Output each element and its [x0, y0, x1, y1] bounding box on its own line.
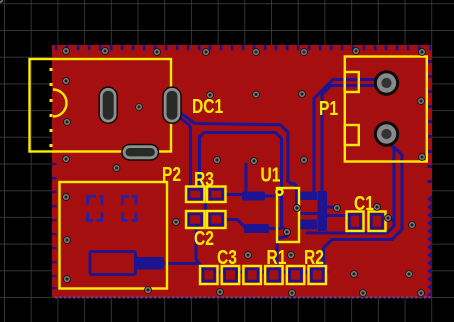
- DC1 slot pad 2: [162, 86, 182, 124]
- capacitor C3 pad 1 outline: [200, 266, 218, 284]
- small pad in DC1: [135, 103, 143, 111]
- wire C1 pad2 stub to vertical: [381, 218, 393, 221]
- svg-text:U1: U1: [261, 164, 281, 186]
- R1 pad 1 copper: [246, 269, 258, 281]
- resistor R2 pad 2 outline: [309, 266, 327, 284]
- svg-text:R2: R2: [304, 246, 324, 268]
- connector P2 outline: [60, 182, 168, 289]
- C1 pad 2 copper: [372, 215, 383, 229]
- board edge ticks: top: [55, 45, 432, 50]
- C1 pad 1 copper: [350, 215, 361, 229]
- U1 left pad bar upper: [242, 192, 265, 201]
- P2 internal blue rounded rect: [90, 252, 136, 275]
- svg-text:P2: P2: [162, 163, 181, 185]
- connector P1 outline: [345, 57, 427, 162]
- R3 pad 1 copper: [189, 190, 202, 200]
- U1 right pad bar lower: [299, 220, 317, 230]
- C3 pad 2 copper: [225, 269, 237, 281]
- capacitor C1 pad 1 outline: [347, 212, 364, 232]
- resistor R2 pad 1 outline: [287, 266, 305, 284]
- DC1 dashed edge marks: [50, 68, 53, 147]
- resistor R3 pad 2 outline: [207, 187, 226, 203]
- capacitor C2 pad 2 outline: [207, 211, 226, 228]
- resistor R1 pad 1 outline: [243, 266, 261, 284]
- C2 pad 2 copper: [210, 214, 223, 225]
- connector DC1 outline: [30, 59, 172, 152]
- wire R3 pad2 up and right to U1 (inner L path): [200, 133, 288, 232]
- IC U1 outline: [277, 188, 299, 242]
- wire via down into upper bar: [244, 164, 247, 193]
- wire DC1 pad2 to U1 (outer L path): [171, 106, 297, 206]
- board copper plane: [52, 45, 432, 297]
- wire C2 pad1 down to bottom row: [196, 225, 200, 264]
- P1 pin 1 square: [345, 72, 359, 92]
- wire R3 pad2 to U1 left pad bar: [224, 193, 243, 196]
- C2 pad 1 copper: [189, 214, 202, 225]
- wire bar to via right of U1: [326, 205, 336, 209]
- svg-text:P1: P1: [319, 97, 338, 119]
- DC1 slot pad 1: [98, 86, 118, 124]
- wire P1 pad2 down right outer: [324, 142, 403, 267]
- U1 right pad bar upper: [299, 192, 317, 201]
- svg-text:R1: R1: [267, 246, 287, 268]
- wire U1 right mid: [300, 212, 325, 215]
- svg-text:DC1: DC1: [192, 95, 223, 117]
- P1 pad 1 (round): [374, 70, 399, 95]
- wire DC1 pad2 to R3 pad1: [170, 111, 191, 190]
- R3 pad 2 copper: [210, 190, 223, 200]
- board edge ticks: left: [52, 163, 57, 289]
- board edge dashes: bottom (magenta): [55, 296, 432, 298]
- pad copper rings (bottom layer): [189, 190, 383, 282]
- capacitor C3 pad 2 outline: [222, 266, 240, 284]
- wire lower bar stub to U1: [268, 227, 280, 230]
- capacitor C2 pad 1 outline: [186, 211, 205, 228]
- connector DC1 arc: [53, 90, 67, 117]
- R1 pad 2 copper: [268, 269, 280, 281]
- wire U1 bottom via to R1 pad4: [277, 231, 287, 272]
- resistor R1 pad 2 outline: [265, 266, 283, 284]
- svg-text:C2: C2: [194, 227, 214, 249]
- wire U1 to C1 pad1: [327, 214, 348, 217]
- P2 fat stub: [134, 257, 164, 270]
- P2 corner bracket square 2: [123, 197, 137, 221]
- wire upper bar stub to U1: [265, 194, 280, 197]
- wire bottom row horizontal through C3 R1 R2 pads: [165, 264, 327, 273]
- fat vertical bar right of U1: [318, 191, 328, 231]
- R2 pad 1 copper: [290, 269, 302, 281]
- wire R3 pad2 to C2 pad2 link: [204, 197, 207, 213]
- resistor R3 pad 1 outline: [186, 187, 205, 203]
- C3 pad 1 copper: [203, 269, 215, 281]
- wire P1 pad1 left pair inner: [322, 86, 384, 193]
- svg-text:R3: R3: [194, 168, 214, 190]
- svg-text:C3: C3: [217, 246, 237, 268]
- svg-text:C1: C1: [354, 192, 374, 214]
- capacitor C1 pad 2 outline: [369, 212, 386, 232]
- P1 pad 2 (round): [374, 121, 399, 146]
- U1 pin 1 marker: [275, 188, 283, 196]
- vias: [0, 0, 4, 4]
- P1 pin 2 square: [345, 125, 359, 145]
- board edge serration: right lower: [427, 195, 432, 298]
- DC1 slot pad 3 (horizontal): [121, 144, 159, 161]
- P2 corner bracket square 1: [88, 197, 103, 221]
- board edge ticks: right upper: [428, 60, 433, 183]
- U1 left pad bar lower: [244, 224, 269, 233]
- wire P1 pad1 left pair outer: [314, 80, 384, 194]
- wire P1 pad2 down right inner: [307, 141, 394, 233]
- R2 pad 2 copper: [312, 269, 324, 281]
- wire C2 pad2 to lower bar: [224, 220, 245, 228]
